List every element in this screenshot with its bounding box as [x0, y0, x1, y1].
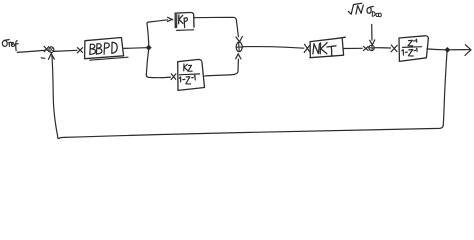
- wire feedback bottom horizontal: [59, 126, 443, 139]
- arrowhead into BBPD: [77, 48, 82, 53]
- wire sigma_ref to summer S1: [17, 50, 46, 52]
- block BBPD box: [85, 38, 124, 59]
- label z^-1 numerator: [408, 39, 417, 46]
- node sigma_ref label: [2, 40, 18, 51]
- arrowhead up into S1 (feedback): [49, 53, 55, 59]
- block z^-1/(1-z^-1) box: [399, 36, 428, 62]
- label Kz: [184, 64, 192, 71]
- arrowhead down into S3: [370, 40, 375, 45]
- label sqrtN sigma_DCO: [348, 3, 381, 17]
- label BBPD: [90, 42, 117, 54]
- wire sigma_DCO down into S3: [371, 25, 373, 41]
- block NKT box: [310, 37, 345, 58]
- wire node A vertical branch: [146, 23, 149, 75]
- label 1-z^-1 in Kz box: [179, 75, 195, 84]
- arrowhead into Kp: [167, 17, 173, 21]
- wire feedback right vertical: [443, 52, 447, 126]
- wire S3 to accumulator block: [374, 47, 390, 49]
- junction node A (dot): [146, 45, 151, 50]
- wire S1 to BBPD: [54, 50, 77, 51]
- wire node B to output arrow: [450, 49, 471, 51]
- arrowhead into S3: [363, 46, 368, 50]
- arrowhead into accumulator: [391, 45, 397, 52]
- wire accumulator to node B: [427, 48, 446, 51]
- summing junction S1: [49, 47, 54, 53]
- arrowhead up into S2: [236, 54, 241, 59]
- block Kp box: [175, 12, 194, 27]
- arrowhead into S1: [44, 46, 49, 51]
- summing junction S2: [236, 42, 242, 52]
- wire Kp to summer S2 (top corner): [194, 17, 238, 36]
- wire BBPD to node A: [124, 47, 146, 50]
- junction node B (dot): [445, 48, 449, 53]
- summing junction S3: [369, 45, 374, 50]
- fraction bar in Kz box: [179, 73, 199, 76]
- output arrowhead: [465, 45, 471, 56]
- label 1-z^-1 denominator: [402, 48, 417, 56]
- arrowhead into Kz: [171, 74, 176, 80]
- wire S2 to NKT: [242, 47, 303, 49]
- label NKT: [313, 43, 336, 57]
- wire NKT to summer S3: [344, 47, 362, 49]
- block Kz box: [178, 59, 205, 90]
- arrowhead down into S2: [236, 36, 242, 41]
- minus sign at S1: [41, 57, 45, 59]
- wire Kz to summer S2 (bottom corner): [205, 59, 239, 76]
- wire node A to Kp: [147, 20, 168, 24]
- arrowhead into NKT: [304, 44, 310, 52]
- fraction bar in accumulator box: [403, 46, 422, 49]
- wire node A to Kz (bottom branch): [146, 75, 170, 78]
- label Kp: [179, 15, 188, 28]
- wire feedback left vertical: [52, 55, 60, 139]
